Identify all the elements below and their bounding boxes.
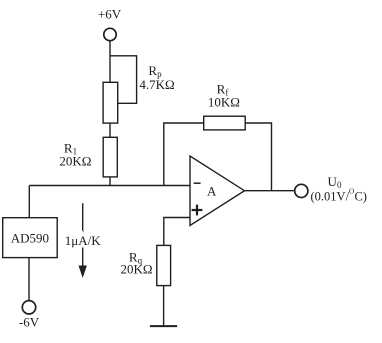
wire: op-amp output <box>245 190 295 192</box>
wire: noninverting input from op-amp to Rq <box>164 218 190 246</box>
+6V terminal <box>104 28 116 40</box>
output terminal <box>295 184 308 197</box>
resistor Rq <box>157 245 171 285</box>
svg-text:1μA/K: 1μA/K <box>65 233 101 248</box>
svg-text:AD590: AD590 <box>11 231 49 246</box>
wire: AD590 to -6V terminal <box>28 258 30 301</box>
-6V terminal <box>22 301 35 314</box>
wire: R1 bottom to inverting bus <box>109 177 111 186</box>
svg-text:10KΩ: 10KΩ <box>208 95 240 110</box>
resistor Rp <box>103 82 118 123</box>
svg-text:(0.01V/OC): (0.01V/OC) <box>311 186 367 203</box>
wire: inverting input bus <box>29 185 190 187</box>
wire: +6V terminal down to resistor Rp <box>109 41 111 82</box>
ground <box>150 325 177 327</box>
wire: Rp bypass branch (wiper short) <box>110 56 137 104</box>
current arrow 1uA/K line <box>82 203 84 266</box>
AD590 sensor box <box>3 218 58 258</box>
resistor Rf <box>204 116 246 130</box>
svg-text:20KΩ: 20KΩ <box>59 154 91 169</box>
svg-text:20KΩ: 20KΩ <box>120 262 152 277</box>
wire: feedback tap from bus up and right to Rf <box>164 123 204 186</box>
arrowhead of 1uA/K current arrow <box>79 266 87 279</box>
op-amp A <box>190 156 245 226</box>
plus sign of op-amp <box>192 205 203 216</box>
svg-text:A: A <box>207 184 217 199</box>
wire: bus down to AD590 <box>28 186 30 218</box>
wire: Rf right to output node <box>245 123 271 191</box>
wire: Rp to R1 <box>109 123 111 137</box>
resistor R1 <box>103 137 117 177</box>
minus sign of op-amp <box>194 182 201 184</box>
svg-text:4.7KΩ: 4.7KΩ <box>139 77 174 92</box>
svg-text:+6V: +6V <box>98 7 122 22</box>
svg-text:-6V: -6V <box>19 315 40 330</box>
wire: Rq to ground <box>163 286 165 327</box>
